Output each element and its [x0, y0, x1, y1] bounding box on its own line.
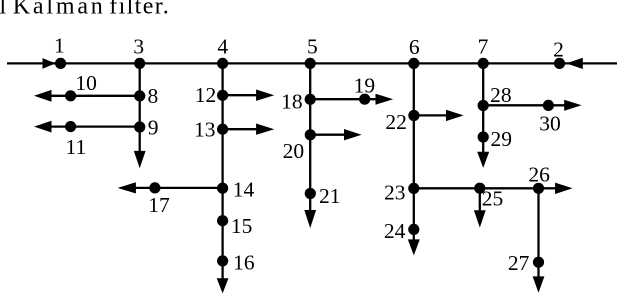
wire: branch below bus 4: [221, 63, 223, 279]
svg-text:Kalman: Kalman: [13, 0, 106, 20]
arrow: load right of node 22: [446, 110, 464, 121]
node 17: [149, 182, 160, 193]
node bus 7: [478, 58, 489, 69]
node 21: [305, 188, 316, 199]
wire: stub from node 22: [414, 114, 447, 116]
node 25: [474, 183, 485, 194]
node 10: [65, 90, 76, 101]
wire: lateral from node 18: [310, 98, 376, 100]
node 18: [305, 94, 316, 105]
arrow: load at bottom of bus-4 branch: [217, 278, 229, 293]
node 9: [134, 121, 145, 132]
node bus 3: [134, 58, 145, 69]
svg-text:6: 6: [409, 35, 420, 59]
svg-text:21: 21: [319, 184, 341, 208]
node 22: [408, 110, 419, 121]
svg-text:1: 1: [54, 33, 65, 57]
arrow: load below node 24: [408, 239, 420, 255]
svg-text:2: 2: [553, 37, 564, 61]
arrow: load at bottom of bus-3 branch: [134, 151, 146, 168]
wire: stub from node 12: [223, 94, 257, 96]
arrow: source feed into bus 2: [566, 58, 583, 69]
node bus 5: [305, 58, 316, 69]
svg-text:22: 22: [385, 110, 407, 134]
wire: lateral from node 14: [135, 187, 223, 189]
wire: main feeder line: [7, 62, 617, 64]
svg-text:4: 4: [217, 35, 228, 59]
arrow: load at end of node 14 lateral: [118, 182, 136, 193]
node 23: [408, 183, 419, 194]
node 16: [217, 255, 228, 266]
node 30: [543, 100, 554, 111]
svg-text:11: 11: [66, 135, 87, 159]
svg-text:25: 25: [482, 187, 504, 211]
node 27: [533, 257, 544, 268]
svg-text:24: 24: [384, 219, 406, 243]
svg-text:5: 5: [307, 35, 318, 59]
svg-text:17: 17: [148, 193, 170, 217]
node 14: [217, 183, 228, 194]
wire: stub from node 13: [223, 128, 257, 130]
svg-text:26: 26: [528, 162, 550, 186]
svg-text:28: 28: [490, 83, 512, 107]
arrow: load right of node 20: [344, 129, 362, 140]
wire: branch below bus 3: [139, 63, 141, 152]
node 12: [217, 90, 228, 101]
node bus 2: [554, 58, 565, 69]
svg-text:3: 3: [133, 34, 144, 58]
svg-text:18: 18: [281, 89, 303, 113]
svg-text:29: 29: [491, 127, 513, 151]
svg-text:20: 20: [283, 139, 305, 163]
node 15: [217, 215, 228, 226]
node bus 6: [408, 58, 419, 69]
arrow: load below node 21: [304, 210, 316, 228]
svg-text:12: 12: [195, 83, 217, 107]
wire: drop below node 25: [479, 188, 481, 211]
wire: lateral from node 28: [483, 104, 565, 106]
wire: branch below bus 5: [309, 63, 311, 211]
svg-text:23: 23: [384, 181, 406, 205]
node 24: [408, 224, 419, 235]
arrow: load at end of node 18 lateral: [376, 94, 394, 105]
wire: lateral from node 9: [51, 125, 140, 127]
arrow: source feed into bus 1: [43, 58, 56, 69]
node 28: [478, 100, 489, 111]
node 19: [359, 94, 370, 105]
arrow: load right of node 26: [555, 183, 572, 194]
node 26: [533, 183, 544, 194]
arrow: load right of node 13: [256, 124, 274, 135]
wire: stub from node 20: [310, 134, 345, 136]
wire: stub from node 26: [539, 187, 557, 189]
node 11: [65, 121, 76, 132]
svg-text:16: 16: [233, 250, 255, 274]
svg-text:10: 10: [75, 71, 97, 95]
wire: branch below bus 6: [413, 63, 415, 240]
wire: branch below bus 7: [482, 63, 484, 152]
svg-text:8: 8: [148, 84, 159, 108]
svg-text:9: 9: [148, 116, 159, 140]
arrow: load at end of node 9 lateral: [34, 121, 52, 133]
svg-text:15: 15: [231, 214, 253, 238]
arrow: load at bottom of bus-7 branch: [477, 152, 489, 168]
svg-text:27: 27: [508, 251, 530, 275]
arrow: load at end of node 28 lateral: [564, 100, 581, 111]
node bus 4: [217, 58, 228, 69]
wire: branch from node 26 to node 27: [537, 188, 539, 277]
svg-text:l: l: [0, 0, 7, 20]
node 8: [134, 90, 145, 101]
wire: lateral from node 23 to node 26: [414, 187, 539, 189]
arrow: load below node 27: [533, 276, 545, 292]
wire: lateral from node 8: [51, 95, 140, 97]
arrow: load right of node 12: [256, 90, 274, 101]
node 20: [305, 129, 316, 140]
svg-text:14: 14: [233, 178, 255, 202]
node 13: [217, 124, 228, 135]
svg-text:13: 13: [194, 118, 216, 142]
arrow: load below node 25: [474, 210, 486, 227]
node 29: [478, 131, 489, 142]
svg-text:30: 30: [539, 111, 561, 135]
node bus 1: [55, 58, 66, 69]
svg-text:filter.: filter.: [109, 0, 170, 20]
arrow: load at end of node 8 lateral: [34, 90, 52, 102]
svg-text:7: 7: [478, 35, 489, 59]
svg-text:19: 19: [354, 73, 376, 97]
